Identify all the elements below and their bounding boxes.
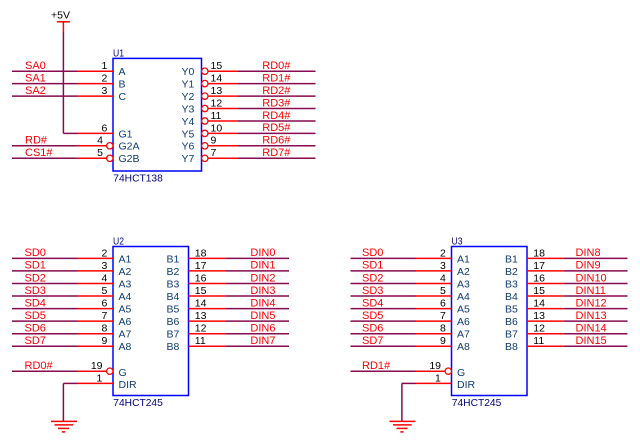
svg-text:A4: A4	[457, 291, 470, 303]
svg-text:Y4: Y4	[182, 116, 195, 128]
svg-text:8: 8	[440, 323, 446, 335]
wire net SD0 (U2)	[12, 257, 78, 259]
svg-text:DIR: DIR	[119, 379, 138, 391]
svg-text:SD6: SD6	[362, 323, 383, 335]
wire net DIN7	[225, 345, 289, 347]
svg-text:11: 11	[533, 335, 544, 347]
designator U2	[113, 236, 124, 248]
svg-text:15: 15	[211, 60, 223, 72]
svg-text:DIN9: DIN9	[576, 260, 601, 272]
svg-text:4: 4	[440, 272, 446, 284]
svg-text:SD7: SD7	[362, 335, 383, 347]
svg-text:2: 2	[101, 73, 107, 85]
svg-text:13: 13	[533, 310, 545, 322]
wire net SD6 (U3)	[351, 333, 417, 335]
svg-text:SD2: SD2	[25, 272, 46, 284]
svg-text:Y6: Y6	[182, 141, 195, 153]
svg-text:1: 1	[101, 60, 107, 72]
wire net SA1	[12, 83, 78, 85]
svg-text:SD5: SD5	[362, 310, 383, 322]
svg-text:B8: B8	[505, 341, 518, 353]
svg-text:2: 2	[440, 247, 446, 259]
svg-text:SD1: SD1	[362, 260, 383, 272]
net label DIN0	[250, 247, 275, 259]
ground symbol (U2)	[51, 421, 77, 432]
svg-text:4: 4	[97, 135, 103, 147]
svg-text:DIN11: DIN11	[576, 285, 606, 297]
wire net DIN13	[564, 320, 628, 322]
wire net RD#	[12, 145, 78, 147]
U1 pin 14 Y1	[182, 73, 239, 91]
svg-text:RD0#: RD0#	[262, 60, 291, 72]
svg-text:1: 1	[96, 372, 102, 384]
U2 pin 19 G	[77, 360, 127, 379]
net label DIN4	[250, 297, 275, 309]
U2 pin 2 A1	[77, 247, 132, 265]
svg-text:G1: G1	[119, 128, 133, 140]
wire net SD7 (U3)	[351, 345, 417, 347]
svg-text:U3: U3	[452, 236, 463, 248]
svg-text:B7: B7	[167, 329, 180, 341]
U3 pin 12 B7	[505, 323, 564, 341]
net label SD4 (U3)	[362, 297, 383, 309]
net label SD6 (U3)	[362, 323, 383, 335]
U2 pin 11 B8	[167, 335, 226, 353]
svg-text:14: 14	[211, 73, 223, 85]
net label SD6 (U2)	[25, 323, 46, 335]
U2 pin 8 A7	[77, 323, 132, 341]
net label RD7#	[262, 147, 291, 159]
net label DIN10	[576, 272, 607, 284]
U1 pin 1 A	[77, 60, 126, 78]
net label RD1#	[362, 360, 391, 372]
U1 pin 5 G2B	[77, 147, 140, 165]
svg-text:A7: A7	[457, 329, 470, 341]
svg-text:74HCT138: 74HCT138	[113, 172, 163, 184]
wire net DIN12	[564, 308, 628, 310]
U3 pin 15 B4	[505, 285, 564, 303]
U2 pin 3 A2	[77, 260, 132, 278]
svg-text:15: 15	[533, 285, 545, 297]
net label RD6#	[262, 135, 291, 147]
U1 pin 11 Y4	[182, 110, 239, 128]
svg-text:G: G	[457, 367, 465, 379]
wire net RD2#	[238, 95, 316, 97]
svg-text:DIN0: DIN0	[250, 247, 275, 259]
svg-text:A1: A1	[119, 253, 132, 265]
svg-text:B2: B2	[167, 266, 180, 278]
wire net SD3 (U2)	[12, 295, 78, 297]
wire net RD0#	[238, 70, 316, 72]
svg-text:10: 10	[211, 122, 223, 134]
U3 pin 11 B8	[505, 335, 564, 353]
svg-text:7: 7	[101, 310, 107, 322]
wire net DIN3	[225, 295, 289, 297]
svg-text:RD7#: RD7#	[262, 147, 291, 159]
svg-text:Y5: Y5	[182, 128, 195, 140]
wire net SD5 (U3)	[351, 320, 417, 322]
designator U1	[113, 48, 124, 60]
net label RD3#	[262, 97, 291, 109]
svg-text:13: 13	[195, 310, 207, 322]
svg-text:B1: B1	[167, 253, 180, 265]
U2 pin 13 B6	[167, 310, 226, 328]
net label SD1 (U2)	[25, 260, 46, 272]
wire net DIN6	[225, 333, 289, 335]
wire net RD3#	[238, 108, 316, 110]
net label DIN13	[576, 310, 607, 322]
svg-text:SD2: SD2	[362, 272, 383, 284]
U2 pin 12 B7	[167, 323, 226, 341]
wire net SD1 (U3)	[351, 270, 417, 272]
wire U2 DIR to ground	[63, 383, 77, 421]
net label DIN6	[250, 323, 275, 335]
svg-text:A8: A8	[119, 341, 132, 353]
svg-text:SD0: SD0	[362, 247, 383, 259]
value 74HCT138	[113, 172, 163, 184]
svg-text:B5: B5	[505, 304, 518, 316]
svg-text:DIN14: DIN14	[576, 323, 607, 335]
svg-text:+5V: +5V	[51, 10, 70, 22]
svg-text:RD5#: RD5#	[262, 122, 291, 134]
svg-text:A5: A5	[457, 304, 470, 316]
net label SD0 (U2)	[25, 247, 46, 259]
svg-text:B: B	[119, 79, 126, 91]
wire net RD0#	[12, 370, 78, 372]
net label RD#	[25, 135, 48, 147]
svg-text:A5: A5	[119, 304, 132, 316]
wire U3 DIR to ground	[402, 383, 416, 421]
svg-text:A6: A6	[457, 316, 470, 328]
svg-text:DIN2: DIN2	[250, 272, 275, 284]
svg-text:SD3: SD3	[25, 285, 46, 297]
U1 pin 9 Y6	[182, 135, 239, 153]
U2 pin 6 A5	[77, 298, 132, 316]
svg-text:8: 8	[101, 323, 107, 335]
U3 pin 8 A7	[416, 323, 471, 341]
svg-text:A3: A3	[457, 278, 470, 290]
wire net DIN8	[564, 257, 628, 259]
svg-text:G: G	[119, 367, 127, 379]
net label RD0#	[25, 360, 54, 372]
wire net DIN5	[225, 320, 289, 322]
net label DIN1	[250, 260, 275, 272]
svg-text:B6: B6	[167, 316, 180, 328]
svg-text:DIN13: DIN13	[576, 310, 607, 322]
wire net CS1#	[12, 157, 78, 159]
net label SD3 (U2)	[25, 285, 46, 297]
U2 pin 16 B3	[167, 272, 226, 290]
svg-text:A8: A8	[457, 341, 470, 353]
svg-text:5: 5	[101, 285, 107, 297]
svg-text:SD7: SD7	[25, 335, 46, 347]
U1 pin 10 Y5	[182, 122, 239, 140]
svg-text:DIN1: DIN1	[250, 260, 275, 272]
svg-text:17: 17	[533, 260, 545, 272]
svg-text:B4: B4	[505, 291, 518, 303]
svg-text:RD1#: RD1#	[362, 360, 391, 372]
svg-text:12: 12	[195, 323, 207, 335]
svg-text:SD1: SD1	[25, 260, 46, 272]
svg-text:A1: A1	[457, 253, 470, 265]
svg-text:9: 9	[101, 335, 107, 347]
net label DIN7	[250, 335, 275, 347]
svg-text:SD4: SD4	[25, 297, 46, 309]
svg-text:1: 1	[435, 372, 441, 384]
U3 pin 19 G	[416, 360, 466, 379]
svg-text:RD4#: RD4#	[262, 110, 291, 122]
wire net SD2 (U2)	[12, 283, 78, 285]
wire net DIN11	[564, 295, 628, 297]
wire net SD1 (U2)	[12, 270, 78, 272]
svg-text:74HCT245: 74HCT245	[113, 397, 163, 409]
net label SA1	[25, 72, 46, 84]
U1 pin 12 Y3	[182, 97, 239, 115]
net label RD4#	[262, 110, 291, 122]
svg-text:DIN6: DIN6	[250, 323, 275, 335]
ground symbol (U3)	[390, 421, 416, 432]
net label SD0 (U3)	[362, 247, 383, 259]
wire net DIN10	[564, 283, 628, 285]
net label SD1 (U3)	[362, 260, 383, 272]
svg-text:SA0: SA0	[25, 60, 46, 72]
svg-text:7: 7	[440, 310, 446, 322]
U3 pin 1 DIR	[416, 372, 476, 391]
wire net DIN15	[564, 345, 628, 347]
wire net SD5 (U2)	[12, 320, 78, 322]
svg-text:DIN5: DIN5	[250, 310, 275, 322]
svg-text:A3: A3	[119, 278, 132, 290]
U1 pin 7 Y7	[182, 147, 239, 165]
wire net SD7 (U2)	[12, 345, 78, 347]
svg-text:16: 16	[195, 272, 207, 284]
wire net SD4 (U3)	[351, 308, 417, 310]
wire net SD4 (U2)	[12, 308, 78, 310]
svg-text:Y1: Y1	[182, 79, 195, 91]
svg-text:Y0: Y0	[182, 66, 195, 78]
net label CS1#	[25, 147, 53, 159]
net label DIN5	[250, 310, 275, 322]
svg-text:17: 17	[195, 260, 207, 272]
svg-text:12: 12	[211, 97, 223, 109]
svg-text:RD3#: RD3#	[262, 97, 291, 109]
designator U3	[452, 236, 463, 248]
net label SD4 (U2)	[25, 297, 46, 309]
net label DIN8	[576, 247, 601, 259]
U2 pin 1 DIR	[77, 372, 137, 391]
U3 pin 2 A1	[416, 247, 471, 265]
wire net RD1#	[238, 83, 316, 85]
svg-text:14: 14	[195, 298, 207, 310]
svg-text:6: 6	[101, 122, 107, 134]
svg-text:B3: B3	[505, 278, 518, 290]
IC U2 74HCT245 body	[113, 247, 189, 396]
U3 pin 17 B2	[505, 260, 564, 278]
wire net DIN1	[225, 270, 289, 272]
svg-text:G2A: G2A	[119, 141, 140, 153]
svg-text:Y3: Y3	[182, 103, 195, 115]
svg-text:B8: B8	[167, 341, 180, 353]
U3 pin 5 A4	[416, 285, 471, 303]
svg-text:B2: B2	[505, 266, 518, 278]
wire net SD2 (U3)	[351, 283, 417, 285]
U3 pin 13 B6	[505, 310, 564, 328]
U3 pin 6 A5	[416, 298, 471, 316]
svg-text:18: 18	[533, 247, 545, 259]
svg-text:A6: A6	[119, 316, 132, 328]
svg-text:SA1: SA1	[25, 72, 46, 84]
wire net RD6#	[238, 145, 316, 147]
U2 pin 5 A4	[77, 285, 132, 303]
wire net SD0 (U3)	[351, 257, 417, 259]
svg-text:SD3: SD3	[362, 285, 383, 297]
U3 pin 4 A3	[416, 272, 471, 290]
U2 pin 17 B2	[167, 260, 226, 278]
svg-text:RD2#: RD2#	[262, 85, 291, 97]
U3 pin 14 B5	[505, 298, 564, 316]
svg-text:SD5: SD5	[25, 310, 46, 322]
svg-text:B5: B5	[167, 304, 180, 316]
wire net SD3 (U3)	[351, 295, 417, 297]
wire net RD1#	[351, 370, 417, 372]
svg-text:G2B: G2B	[119, 153, 140, 165]
svg-text:9: 9	[440, 335, 446, 347]
net label RD2#	[262, 85, 291, 97]
svg-text:14: 14	[533, 298, 545, 310]
U2 pin 4 A3	[77, 272, 132, 290]
net label SA0	[25, 60, 46, 72]
value 74HCT245 (U2)	[113, 397, 163, 409]
svg-text:Y7: Y7	[182, 153, 195, 165]
wire net SD6 (U2)	[12, 333, 78, 335]
svg-text:A: A	[119, 66, 126, 78]
svg-text:19: 19	[91, 360, 103, 372]
svg-text:5: 5	[440, 285, 446, 297]
wire net RD5#	[238, 132, 316, 134]
svg-text:C: C	[119, 91, 127, 103]
svg-text:SA2: SA2	[25, 85, 46, 97]
IC U3 74HCT245 body	[452, 247, 528, 396]
svg-text:3: 3	[440, 260, 446, 272]
svg-text:A2: A2	[457, 266, 470, 278]
svg-text:B4: B4	[167, 291, 180, 303]
svg-text:15: 15	[195, 285, 207, 297]
net label SD2 (U2)	[25, 272, 46, 284]
net label SD2 (U3)	[362, 272, 383, 284]
U1 pin 15 Y0	[182, 60, 239, 78]
svg-text:CS1#: CS1#	[25, 147, 53, 159]
U3 pin 9 A8	[416, 335, 471, 353]
net label DIN14	[576, 323, 607, 335]
U3 pin 7 A6	[416, 310, 471, 328]
net label SD7 (U3)	[362, 335, 383, 347]
svg-text:7: 7	[211, 147, 217, 159]
svg-text:18: 18	[195, 247, 207, 259]
svg-text:B1: B1	[505, 253, 518, 265]
svg-text:U1: U1	[113, 48, 124, 60]
svg-text:DIN10: DIN10	[576, 272, 607, 284]
svg-text:11: 11	[195, 335, 206, 347]
wire net DIN9	[564, 270, 628, 272]
IC U1 74HCT138 body	[113, 58, 202, 171]
wire +5V to U1 pin 6	[63, 32, 77, 133]
U3 pin 16 B3	[505, 272, 564, 290]
wire net DIN4	[225, 308, 289, 310]
svg-text:6: 6	[101, 298, 107, 310]
net label DIN15	[576, 335, 607, 347]
net label DIN3	[250, 285, 275, 297]
U2 pin 14 B5	[167, 298, 226, 316]
svg-text:A2: A2	[119, 266, 132, 278]
svg-text:12: 12	[533, 323, 545, 335]
power +5V symbol	[51, 10, 70, 33]
U1 pin 4 G2A	[77, 135, 140, 153]
svg-text:U2: U2	[113, 236, 124, 248]
svg-text:74HCT245: 74HCT245	[452, 397, 502, 409]
svg-text:A4: A4	[119, 291, 132, 303]
svg-text:RD6#: RD6#	[262, 135, 291, 147]
svg-text:13: 13	[211, 85, 223, 97]
net label SA2	[25, 85, 46, 97]
svg-text:DIN12: DIN12	[576, 297, 607, 309]
U2 pin 15 B4	[167, 285, 226, 303]
net label RD0#	[262, 60, 291, 72]
U3 pin 3 A2	[416, 260, 471, 278]
value 74HCT245 (U3)	[452, 397, 502, 409]
net label SD5 (U2)	[25, 310, 46, 322]
svg-text:DIN8: DIN8	[576, 247, 601, 259]
U1 pin 3 C	[77, 85, 127, 103]
svg-text:Y2: Y2	[182, 91, 195, 103]
wire net RD4#	[238, 120, 316, 122]
U2 pin 18 B1	[167, 247, 226, 265]
wire net DIN14	[564, 333, 628, 335]
wire net SA0	[12, 70, 78, 72]
svg-text:16: 16	[533, 272, 545, 284]
svg-text:A7: A7	[119, 329, 132, 341]
svg-text:DIN15: DIN15	[576, 335, 607, 347]
svg-text:2: 2	[101, 247, 107, 259]
net label DIN2	[250, 272, 275, 284]
svg-text:19: 19	[429, 360, 441, 372]
U1 pin 13 Y2	[182, 85, 239, 103]
svg-text:SD4: SD4	[362, 297, 383, 309]
net label SD7 (U2)	[25, 335, 46, 347]
svg-text:B3: B3	[167, 278, 180, 290]
wire net RD7#	[238, 157, 316, 159]
U3 pin 18 B1	[505, 247, 564, 265]
svg-text:3: 3	[101, 85, 107, 97]
U1 pin 6 G1	[77, 122, 133, 140]
svg-text:5: 5	[97, 147, 103, 159]
svg-text:RD1#: RD1#	[262, 72, 291, 84]
svg-text:B7: B7	[505, 329, 518, 341]
svg-text:RD0#: RD0#	[25, 360, 54, 372]
wire net DIN0	[225, 257, 289, 259]
net label SD3 (U3)	[362, 285, 383, 297]
svg-text:11: 11	[211, 110, 222, 122]
U1 pin 2 B	[77, 73, 126, 91]
svg-text:SD6: SD6	[25, 323, 46, 335]
net label RD5#	[262, 122, 291, 134]
U2 pin 9 A8	[77, 335, 132, 353]
net label DIN9	[576, 260, 601, 272]
svg-text:3: 3	[101, 260, 107, 272]
svg-text:9: 9	[211, 135, 217, 147]
svg-text:DIN3: DIN3	[250, 285, 275, 297]
net label RD1#	[262, 72, 291, 84]
svg-text:DIR: DIR	[457, 379, 476, 391]
